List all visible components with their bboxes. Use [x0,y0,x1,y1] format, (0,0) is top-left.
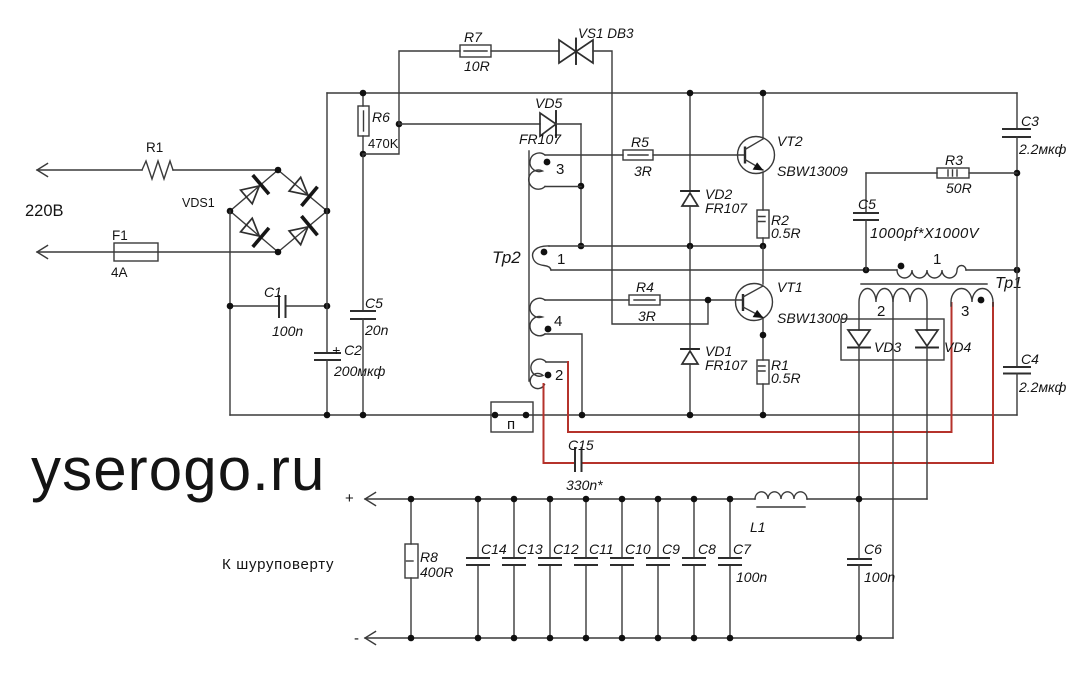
wire C1 row [227,303,331,310]
svg-text:10R: 10R [464,58,490,74]
svg-text:3: 3 [961,303,969,320]
svg-text:VD5: VD5 [535,95,562,111]
wire output plus row with arrow [345,490,927,507]
Tp1 winding 1 [863,251,1021,278]
svg-text:SBW13009: SBW13009 [777,163,848,179]
svg-text:C9: C9 [662,541,680,557]
svg-text:470K: 470K [368,136,399,151]
capacitor C10 [611,496,651,642]
jumper box п [491,402,533,433]
svg-text:4: 4 [554,313,562,330]
svg-text:+: + [345,490,354,507]
svg-text:F1: F1 [112,228,128,243]
svg-text:C12: C12 [553,541,579,557]
capacitor C3 2.2mkf [1003,93,1067,270]
bridge diode bottom-left [238,216,269,247]
svg-text:3R: 3R [634,163,652,179]
capacitor C9 [647,496,680,642]
transistor VT2 SBW13009 [738,90,849,210]
svg-text:R1: R1 [146,140,163,155]
svg-text:C11: C11 [589,541,614,557]
diode VD3 [848,330,901,499]
svg-text:1000pf*X1000V: 1000pf*X1000V [870,226,981,242]
wire bridge left down to ground row [229,211,231,415]
capacitor C6 100n [848,496,895,642]
capacitor C1 100n [264,284,303,339]
resistor R3 50R [866,152,1017,196]
inductor L1 [750,492,807,535]
diode bridge VDS1 [182,167,330,256]
svg-text:400R: 400R [420,564,453,580]
Tp1 winding 3 [951,289,993,321]
red wire upper: Tp2 winding2 top to Tp1 winding3 left [568,303,952,432]
svg-text:0.5R: 0.5R [771,225,801,241]
svg-text:100n: 100n [864,569,895,585]
svg-text:п: п [507,416,515,433]
resistor R7 10R [399,29,559,124]
svg-text:Тр1: Тр1 [995,275,1022,292]
svg-text:C15: C15 [568,437,594,453]
bridge diode top-left [238,175,269,206]
wire VD5 cathode down to winding junctions [578,124,585,249]
svg-text:C5: C5 [365,295,383,311]
svg-text:L1: L1 [750,519,766,535]
svg-text:R8: R8 [420,549,438,565]
svg-text:C1: C1 [264,284,282,300]
resistor R1 0.5R emitter [757,357,801,415]
svg-text:R6: R6 [372,109,390,125]
transistor VT1 SBW13009 [736,246,849,360]
svg-text:100n: 100n [736,569,767,585]
svg-text:3: 3 [556,161,564,178]
capacitor C2 200mkf [315,342,386,415]
svg-text:yserogo.ru: yserogo.ru [31,436,325,503]
red wire lower: Tp2 winding2 bottom through C15 to Tp1 winding3 right [544,303,994,463]
svg-text:VS1 DB3: VS1 DB3 [578,26,634,41]
capacitor C4 2.2mkf [1004,270,1067,415]
svg-text:К шуруповерту: К шуруповерту [222,556,334,573]
resistor R2 0.5R [757,210,801,249]
svg-text:2: 2 [555,367,563,384]
svg-text:VDS1: VDS1 [182,196,215,210]
svg-text:FR107: FR107 [705,200,748,216]
svg-text:C6: C6 [864,541,882,557]
svg-text:FR107: FR107 [705,357,748,373]
svg-text:50R: 50R [946,180,972,196]
svg-text:VD3: VD3 [874,339,901,355]
svg-text:200мкф: 200мкф [333,363,386,379]
svg-text:C10: C10 [625,541,651,557]
diode VD5 FR107 [399,95,581,147]
diode VD2 FR107 [681,90,748,250]
capacitor C8 [683,496,716,642]
Tp2 winding 4 [530,298,629,415]
svg-text:1: 1 [557,251,565,268]
wire R6 bottom to R7/VD5 junction [363,121,402,154]
bridge diode top-right [287,175,318,206]
resistor R6 470K [358,90,399,158]
transformer Tp2 core [492,151,529,381]
svg-text:C8: C8 [698,541,716,557]
svg-text:R5: R5 [631,134,649,150]
resistor R1 [142,140,173,179]
Tp2 winding 1 [533,246,866,270]
Tp1 winding 2 center-tapped [859,289,927,639]
svg-text:-: - [354,630,359,647]
svg-text:VD4: VD4 [944,339,971,355]
resistor R8 400R [405,496,453,642]
capacitor C14 [467,496,507,642]
svg-text:C4: C4 [1021,351,1039,367]
resistor R4 3R [629,279,742,324]
svg-text:R7: R7 [464,29,483,45]
wire primary ground row [230,412,1017,419]
wire AC line bottom with arrow [37,246,278,259]
transformer Tp1 core [861,275,1022,292]
svg-text:1: 1 [933,251,941,268]
diode VD1 FR107 [681,246,748,415]
svg-text:VT2: VT2 [777,133,803,149]
svg-text:100n: 100n [272,323,303,339]
fuse F1 4A [111,228,158,280]
Tp2 winding 3 [529,153,623,189]
svg-text:C13: C13 [517,541,543,557]
capacitor C12 [539,496,579,642]
svg-text:2.2мкф: 2.2мкф [1018,379,1067,395]
svg-text:2: 2 [877,303,885,320]
svg-text:2.2мкф: 2.2мкф [1018,141,1067,157]
resistor R5 3R [623,134,744,179]
svg-text:20n: 20n [364,322,389,338]
svg-text:SBW13009: SBW13009 [777,310,848,326]
svg-text:R3: R3 [945,152,963,168]
svg-text:0.5R: 0.5R [771,370,801,386]
svg-text:+ C2: + C2 [332,342,362,358]
svg-text:C14: C14 [481,541,507,557]
svg-text:VT1: VT1 [777,279,803,295]
wire AC line top with arrow [37,164,278,177]
capacitor C5 20n [351,154,389,415]
capacitor C7 100n [719,496,767,642]
svg-text:C7: C7 [733,541,752,557]
capacitor C11 [575,496,614,642]
svg-text:R4: R4 [636,279,654,295]
capacitor C13 [503,496,543,642]
capacitor C15 330n [566,437,603,493]
svg-text:4A: 4A [111,265,128,280]
diode VD4 [916,330,971,499]
svg-text:330n*: 330n* [566,477,603,493]
capacitor C5 1000pf [854,173,981,270]
bridge diode bottom-right [287,216,318,247]
wire top rail [327,92,1017,94]
svg-text:Тр2: Тр2 [492,248,521,267]
svg-text:FR107: FR107 [519,131,562,147]
wire bridge right up to rail and down [326,93,328,353]
svg-text:C5: C5 [858,196,876,212]
svg-text:C3: C3 [1021,113,1039,129]
diac VS1 DB3 [559,26,634,64]
rectifier box around VD3 VD4 [841,319,944,360]
svg-text:3R: 3R [638,308,656,324]
wire output minus row with arrow [354,630,893,647]
wire diac to VT1 base network [593,51,708,324]
Tp2 winding 2 [530,359,568,389]
svg-text:220В: 220В [25,202,64,220]
